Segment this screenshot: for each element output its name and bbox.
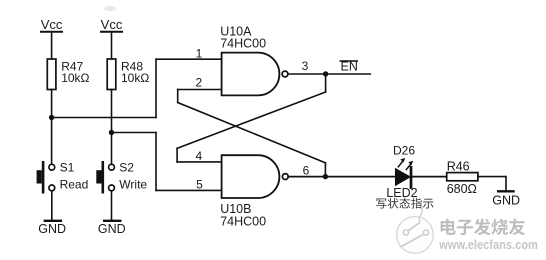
svg-text:4: 4 — [195, 149, 202, 163]
svg-text:Vcc: Vcc — [41, 17, 63, 32]
wire junction to pin5 riser — [112, 132, 157, 134]
wire junction to pin1 riser — [52, 117, 156, 119]
svg-text:5: 5 — [196, 178, 203, 192]
resistor R48 — [107, 59, 116, 90]
wire vertical into pin6 node — [324, 163, 326, 177]
wire S1 to GND — [51, 191, 53, 221]
svg-text:R46: R46 — [447, 159, 470, 173]
svg-text:2: 2 — [195, 75, 202, 89]
S1 labels — [60, 160, 89, 191]
wire R48 to S2 — [111, 90, 113, 165]
svg-text:GND: GND — [98, 222, 126, 236]
svg-text:3: 3 — [302, 59, 309, 73]
svg-text:Write: Write — [119, 178, 147, 192]
svg-text:Read: Read — [60, 178, 89, 192]
svg-text:S2: S2 — [119, 160, 134, 174]
node: R47/S1/pin1 junction — [49, 115, 54, 120]
svg-text:10kΩ: 10kΩ — [61, 71, 89, 85]
ground (S2) — [104, 220, 120, 222]
watermark logo (elecfans) — [397, 206, 434, 253]
ground (S1) — [45, 220, 61, 222]
wire pin5 riser vertical — [155, 133, 157, 191]
power Vcc rail (left, for R47) — [41, 32, 62, 59]
R48 value labels — [121, 60, 149, 85]
node: pin6 output junction — [323, 174, 328, 179]
R46 value labels — [447, 159, 477, 196]
svg-text:D26: D26 — [393, 144, 415, 158]
svg-text:1: 1 — [196, 46, 203, 60]
LED D26 (LED2) — [396, 158, 414, 188]
switch S2 (pushbutton) — [96, 162, 114, 192]
svg-text:6: 6 — [303, 163, 310, 177]
wire pin 1 horizontal into U10A — [156, 58, 222, 60]
wire vertical below pin3 node — [325, 74, 327, 92]
net label EN (active low) — [340, 59, 358, 73]
wire pin 2 horizontal into U10A — [178, 89, 222, 91]
U10B labels — [220, 202, 266, 228]
LED emission arrows — [398, 158, 413, 170]
svg-text:74HC00: 74HC00 — [220, 214, 266, 228]
S2 labels — [119, 160, 147, 191]
faint artifact mark top — [104, 6, 116, 11]
Chinese caption 写状态指示 (write status indicator) - placeholder — [376, 198, 433, 209]
wire pin 5 horizontal into U10B — [156, 189, 222, 191]
svg-text:S1: S1 — [60, 160, 75, 174]
wire pin1 riser vertical — [155, 59, 157, 117]
op-amp: NAND gate U10B (74HC00) — [222, 155, 289, 198]
wire R46 to GND corner — [478, 177, 506, 191]
node: R48/S2/pin5 junction — [109, 130, 114, 135]
svg-text:74HC00: 74HC00 — [220, 37, 266, 51]
wire R47 to S1 — [51, 90, 53, 165]
wire S2 to GND — [111, 191, 113, 221]
op-amp: NAND gate U10A (74HC00) — [222, 53, 288, 96]
ground (R46) — [498, 190, 513, 192]
wire cross-couple diagonal pin2 to pin6 node — [178, 103, 326, 163]
wire output pin 6 to LED — [288, 176, 396, 178]
resistor R47 — [47, 59, 56, 90]
R47 value labels — [61, 60, 89, 85]
svg-text:Vcc: Vcc — [101, 17, 123, 32]
U10A labels — [220, 24, 266, 50]
watermark brand text 电子发烧友 - placeholder — [441, 219, 526, 236]
switch S1 (pushbutton) — [37, 162, 55, 192]
svg-text:GND: GND — [492, 194, 520, 208]
svg-text:10kΩ: 10kΩ — [121, 71, 149, 85]
power Vcc rail (right, for R48) — [101, 32, 122, 59]
node: pin3 output junction — [323, 71, 328, 76]
wire pin 4 horizontal into U10B — [177, 161, 222, 163]
wire pin4 corner vertical — [176, 148, 178, 162]
svg-text:680Ω: 680Ω — [447, 182, 477, 196]
wire cross-couple diagonal pin3 to pin4 — [177, 92, 326, 148]
resistor R46 — [447, 173, 478, 181]
wire LED to R46 — [412, 176, 447, 178]
wire pin2 corner vertical — [177, 90, 179, 103]
svg-text:GND: GND — [38, 222, 66, 236]
wire output pin 3 to EN — [288, 73, 370, 75]
svg-text:www.elecfans.com: www.elecfans.com — [438, 238, 537, 252]
